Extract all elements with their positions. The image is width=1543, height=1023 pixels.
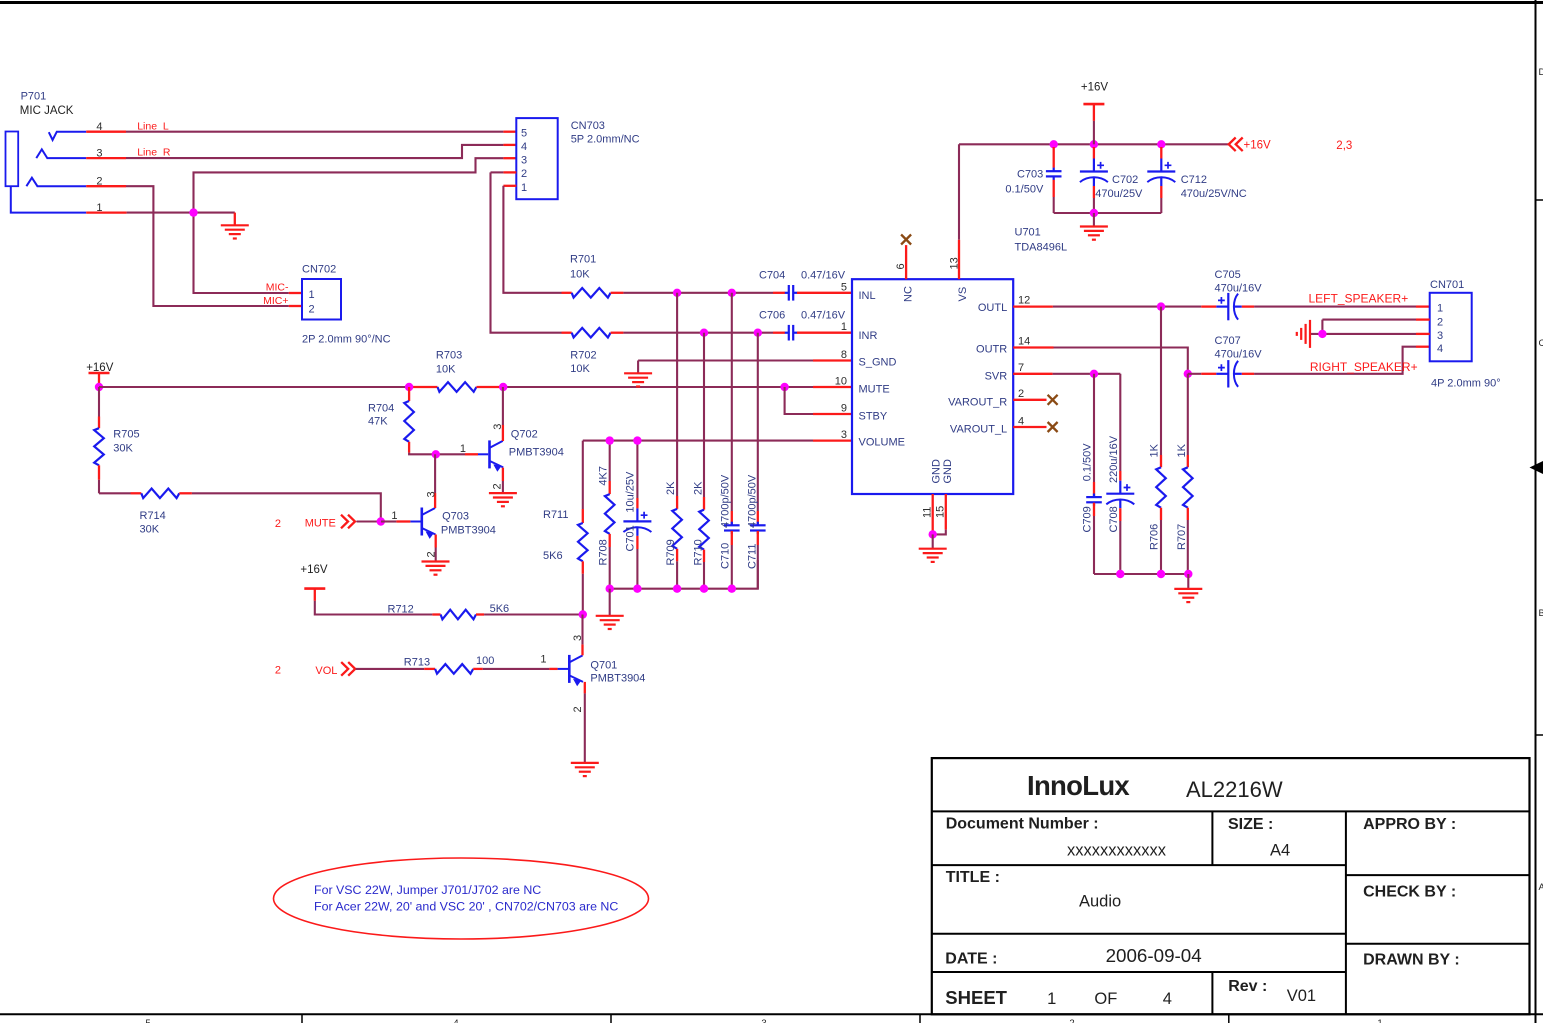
svg-text:47K: 47K [368,416,388,428]
svg-text:5K6: 5K6 [490,603,510,615]
svg-text:PMBT3904: PMBT3904 [441,525,496,537]
svg-text:4: 4 [521,141,527,153]
svg-text:R714: R714 [140,510,166,522]
svg-text:NC: NC [902,286,914,302]
svg-text:GND: GND [930,459,942,484]
svg-text:OUTL: OUTL [978,302,1007,314]
svg-text:4700p/50V: 4700p/50V [720,474,732,528]
svg-text:0.47/16V: 0.47/16V [801,270,846,282]
svg-text:Line_L: Line_L [137,120,169,132]
svg-text:P701: P701 [21,91,47,103]
svg-text:R704: R704 [368,402,394,414]
svg-text:8: 8 [841,349,847,361]
svg-text:10K: 10K [570,363,590,375]
svg-text:6: 6 [895,263,907,269]
svg-text:TDA8496L: TDA8496L [1015,242,1068,254]
svg-text:1K: 1K [1176,443,1188,457]
svg-text:10K: 10K [570,268,590,280]
svg-text:5P 2.0mm/NC: 5P 2.0mm/NC [571,133,640,145]
svg-text:2P 2.0mm 90°/NC: 2P 2.0mm 90°/NC [302,334,391,346]
svg-text:APPRO BY :: APPRO BY : [1363,816,1456,833]
svg-text:2K: 2K [665,481,677,495]
svg-text:R710: R710 [693,539,705,565]
svg-text:R703: R703 [436,350,462,362]
svg-text:4K7: 4K7 [598,466,610,486]
svg-text:3: 3 [761,1018,766,1023]
svg-text:2006-09-04: 2006-09-04 [1106,945,1202,966]
svg-text:1: 1 [841,321,847,333]
svg-text:0.47/16V: 0.47/16V [801,310,846,322]
svg-text:R706: R706 [1149,524,1161,550]
svg-text:MIC JACK: MIC JACK [20,105,74,117]
svg-text:VAROUT_L: VAROUT_L [950,423,1007,435]
svg-text:R705: R705 [113,429,139,441]
svg-text:DRAWN BY :: DRAWN BY : [1363,952,1460,969]
svg-text:3: 3 [841,429,847,441]
svg-text:VS: VS [957,287,969,302]
svg-text:CN701: CN701 [1430,279,1464,291]
svg-text:1: 1 [460,443,466,455]
svg-text:C711: C711 [747,544,759,569]
svg-text:MUTE: MUTE [859,383,890,395]
svg-text:C706: C706 [759,310,785,322]
svg-text:DATE :: DATE : [945,950,997,967]
svg-text:4: 4 [1437,343,1443,355]
svg-text:SIZE :: SIZE : [1228,816,1273,833]
svg-text:C703: C703 [1017,169,1043,181]
svg-text:Audio: Audio [1079,893,1121,911]
svg-text:3: 3 [1437,330,1443,342]
svg-text:1K: 1K [1149,443,1161,457]
svg-text:C709: C709 [1082,506,1094,532]
svg-text:CN702: CN702 [302,264,336,276]
svg-text:VOL: VOL [315,665,337,677]
svg-text:+16V: +16V [1081,82,1109,94]
svg-text:+16V: +16V [1244,140,1272,152]
svg-text:470u/16V: 470u/16V [1215,283,1263,295]
svg-text:30K: 30K [113,442,133,454]
svg-text:3: 3 [96,148,102,160]
svg-text:xxxxxxxxxxxx: xxxxxxxxxxxx [1067,841,1167,859]
svg-text:1: 1 [96,202,102,214]
svg-text:470u/25V/NC: 470u/25V/NC [1181,188,1247,200]
svg-text:9: 9 [841,403,847,415]
svg-text:10: 10 [835,376,847,388]
svg-text:C: C [1539,338,1543,349]
svg-text:D: D [1539,67,1543,78]
svg-text:PMBT3904: PMBT3904 [509,447,564,459]
svg-text:220u/16V: 220u/16V [1108,435,1120,483]
svg-text:INR: INR [859,330,878,342]
svg-text:SHEET: SHEET [945,987,1007,1008]
svg-text:3: 3 [572,635,584,641]
svg-text:4P 2.0mm 90°: 4P 2.0mm 90° [1431,378,1501,390]
svg-text:For VSC 22W, Jumper J701/J702: For VSC 22W, Jumper J701/J702 are NC [314,883,541,897]
svg-text:C705: C705 [1215,269,1241,281]
svg-text:+16V: +16V [300,564,328,576]
svg-text:VAROUT_R: VAROUT_R [948,397,1007,409]
svg-text:4: 4 [96,121,102,133]
svg-text:2: 2 [1069,1018,1074,1023]
svg-text:TITLE :: TITLE : [946,869,1000,886]
svg-text:1: 1 [391,510,397,522]
svg-text:2: 2 [426,551,438,557]
svg-text:R712: R712 [388,603,414,615]
svg-text:5: 5 [841,281,847,293]
svg-text:R707: R707 [1176,524,1188,550]
svg-text:CN703: CN703 [571,120,605,132]
svg-text:R713: R713 [404,656,430,668]
svg-text:LEFT_SPEAKER+: LEFT_SPEAKER+ [1309,291,1409,305]
svg-text:Q701: Q701 [590,660,617,672]
svg-text:R708: R708 [598,539,610,565]
svg-text:2: 2 [309,304,315,316]
svg-text:INL: INL [859,290,876,302]
svg-text:2: 2 [1437,316,1443,328]
svg-text:STBY: STBY [859,410,888,422]
svg-text:R709: R709 [665,539,677,565]
svg-text:R702: R702 [570,349,596,361]
svg-text:4: 4 [1018,416,1024,428]
svg-text:GND: GND [942,459,954,484]
svg-text:3: 3 [426,491,438,497]
svg-text:3: 3 [521,154,527,166]
svg-text:10K: 10K [436,363,456,375]
svg-text:MIC+: MIC+ [263,295,288,307]
svg-text:3: 3 [492,424,504,430]
svg-text:2K: 2K [693,481,705,495]
svg-text:CHECK BY :: CHECK BY : [1363,884,1456,901]
svg-text:PMBT3904: PMBT3904 [590,672,645,684]
svg-text:SVR: SVR [985,371,1008,383]
svg-text:B: B [1539,608,1543,619]
svg-text:5K6: 5K6 [543,550,563,562]
svg-text:1: 1 [1437,302,1443,314]
svg-text:C712: C712 [1181,174,1207,186]
svg-text:2: 2 [1018,388,1024,400]
svg-text:2: 2 [275,664,281,676]
svg-text:10u/25V: 10u/25V [625,471,637,513]
svg-text:2: 2 [521,168,527,180]
svg-text:11: 11 [922,507,934,518]
svg-text:4700p/50V: 4700p/50V [747,474,759,528]
svg-text:MUTE: MUTE [305,518,336,530]
svg-text:0.1/50V: 0.1/50V [1005,184,1044,196]
svg-text:MIC-: MIC- [266,282,289,294]
svg-text:13: 13 [949,257,961,269]
svg-text:470u/16V: 470u/16V [1215,349,1263,361]
svg-text:AL2216W: AL2216W [1186,777,1283,802]
svg-text:1: 1 [1047,990,1056,1008]
svg-text:InnoLux: InnoLux [1027,770,1130,801]
svg-text:C708: C708 [1108,506,1120,532]
svg-text:2: 2 [275,518,281,530]
svg-text:1: 1 [540,653,546,665]
svg-text:30K: 30K [140,524,160,536]
svg-text:VOLUME: VOLUME [859,437,905,449]
svg-text:5: 5 [521,128,527,140]
svg-text:S_GND: S_GND [859,357,897,369]
svg-text:R701: R701 [570,254,596,266]
svg-text:7: 7 [1018,362,1024,374]
svg-text:4: 4 [453,1018,458,1023]
svg-text:1: 1 [1377,1018,1382,1023]
svg-text:A4: A4 [1270,841,1290,859]
svg-text:470u/25V: 470u/25V [1095,188,1143,200]
svg-text:Line_R: Line_R [137,147,171,159]
svg-text:1: 1 [309,289,315,301]
svg-text:5: 5 [145,1018,150,1023]
svg-text:Rev :: Rev : [1228,978,1267,995]
svg-text:A: A [1539,882,1543,893]
svg-text:RIGHT_SPEAKER+: RIGHT_SPEAKER+ [1310,360,1418,374]
svg-text:2: 2 [572,706,584,712]
svg-text:Q702: Q702 [511,429,538,441]
svg-text:OUTR: OUTR [976,344,1007,356]
svg-text:12: 12 [1018,295,1030,307]
svg-text:4: 4 [1163,990,1172,1008]
svg-text:15: 15 [935,506,947,518]
svg-text:U701: U701 [1015,227,1041,239]
svg-text:C704: C704 [759,270,785,282]
svg-text:100: 100 [476,655,494,667]
svg-text:1: 1 [521,182,527,194]
svg-text:C710: C710 [720,543,732,569]
svg-text:0.1/50V: 0.1/50V [1082,443,1094,482]
svg-text:C707: C707 [1215,335,1241,347]
svg-text:For Acer 22W, 20' and VSC 20': For Acer 22W, 20' and VSC 20' , CN702/CN… [314,900,618,914]
svg-text:Document Number :: Document Number : [946,816,1099,833]
svg-text:Q703: Q703 [442,511,469,523]
svg-text:C701: C701 [625,525,637,551]
svg-text:2: 2 [492,483,504,489]
svg-text:2,3: 2,3 [1336,140,1352,152]
svg-text:14: 14 [1018,336,1030,348]
svg-text:2: 2 [96,176,102,188]
svg-text:C702: C702 [1112,174,1138,186]
svg-text:OF: OF [1094,990,1117,1008]
svg-text:V01: V01 [1287,987,1316,1005]
svg-text:R711: R711 [543,509,568,521]
